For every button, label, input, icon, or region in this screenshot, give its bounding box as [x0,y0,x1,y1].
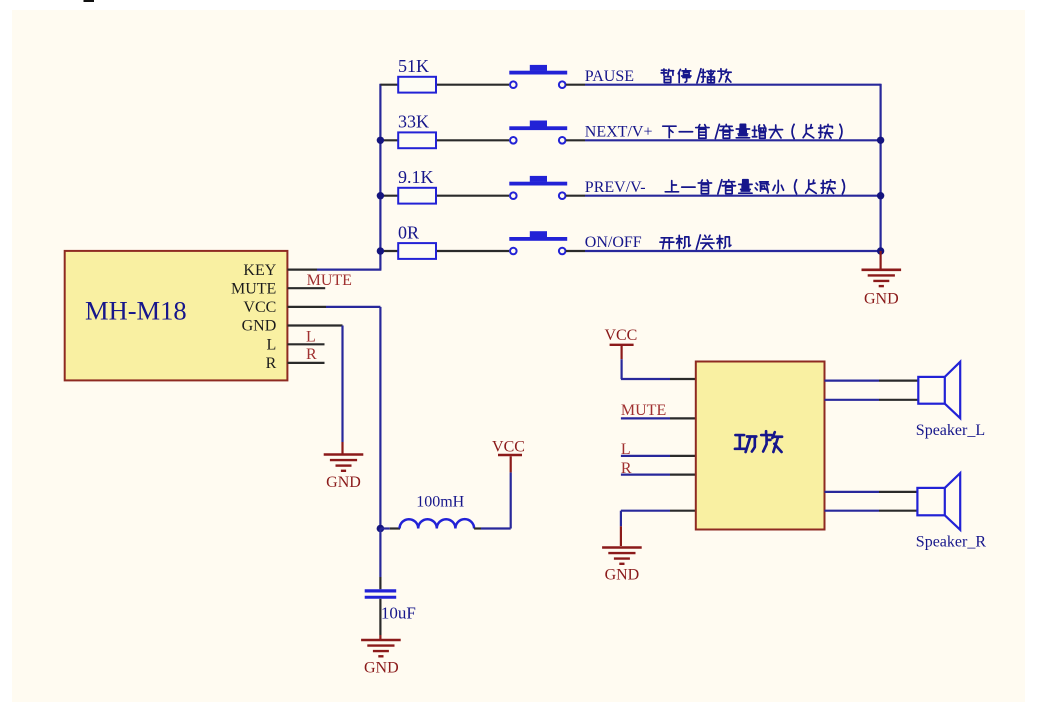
junction node VCC-L1 [377,525,385,533]
wire amp-to-speakerR top [825,491,880,493]
svg-text:100mH: 100mH [416,494,464,511]
svg-text:MH-M18: MH-M18 [85,296,187,326]
svg-text:Speaker_L: Speaker_L [916,422,985,439]
junction bus row 2 [877,137,884,144]
junction trunk row 4 [377,247,384,254]
junction trunk row 3 [377,192,384,199]
wire resistor-to-switch row 3 [437,195,509,197]
speaker LS2 Speaker_R [917,488,944,515]
svg-text:10uF: 10uF [381,604,416,623]
inductor L1 100mH [400,519,475,528]
module U1 MH-M18 [65,251,288,381]
wire junction-to-capacitor [379,529,381,578]
ground GND amp [602,546,642,549]
wire amp-to-speakerL bottom [825,399,880,401]
wire junction-to-inductor [380,527,389,529]
ground GND right bus [879,251,881,269]
wire switch-to-bus row 2 [566,139,585,141]
wire resistor-to-switch row 1 [437,84,509,86]
wire row 3 trunk-to-resistor [380,195,398,197]
label amplifier chinese [735,435,756,452]
ground GND module [324,453,364,456]
svg-text:PREV/V-: PREV/V- [585,179,646,196]
wire switch-to-bus row 3 [566,195,585,197]
pushbutton switch S2 [509,126,567,130]
power VCC bottom [498,454,522,456]
wire left trunk vertical [379,84,381,270]
svg-text:VCC: VCC [243,299,276,316]
wire VCC vertical [379,307,381,529]
svg-text:GND: GND [242,318,277,335]
wire switch-to-bus row 4 [566,250,585,252]
junction bus row 4 [877,247,884,254]
svg-text:Speaker_R: Speaker_R [916,534,987,551]
wire capacitor-to-ground [379,599,381,635]
svg-text:R: R [306,346,317,363]
svg-text:R: R [266,355,277,372]
svg-text:ON/OFF: ON/OFF [585,234,642,251]
junction bus row 3 [877,192,884,199]
svg-text:L: L [306,328,316,345]
label chinese [665,181,678,192]
pin R stub [288,362,325,364]
resistor R1 value 51K [398,77,436,93]
svg-text:51K: 51K [398,56,429,76]
wire GND down [341,326,343,443]
svg-text:L: L [267,337,277,354]
ground GND capacitor [361,639,401,642]
pin KEY wire [288,269,318,271]
wire amp-to-speakerL top [825,380,880,382]
wire resistor-to-switch row 4 [437,250,509,252]
wire VCC-to-amp [620,359,622,379]
wire amp-to-speakerR bottom [825,510,880,512]
wire right bus vertical [879,84,881,251]
wire row 1 trunk-to-resistor [380,84,398,86]
svg-text:GND: GND [364,660,399,677]
svg-text:PAUSE: PAUSE [585,68,634,85]
wire R-to-amp [621,474,670,476]
svg-text:GND: GND [864,291,899,308]
pushbutton switch S4 [509,237,567,241]
svg-text:MUTE: MUTE [231,280,276,297]
wire amp-to-ground [621,510,670,512]
speaker LS1 Speaker_L [918,377,945,404]
svg-text:KEY: KEY [243,262,276,279]
svg-text:9.1K: 9.1K [398,167,434,187]
resistor R3 value 9.1K [398,188,436,204]
label chinese [661,69,673,82]
wire switch-to-bus row 1 [566,84,585,86]
svg-text:MUTE: MUTE [621,402,666,419]
wire row 2 trunk-to-resistor [380,139,398,141]
svg-text:VCC: VCC [604,327,637,344]
pin MUTE stub [288,287,326,289]
pushbutton switch S1 [509,71,567,75]
pin L stub [288,343,325,345]
amplifier U2 [696,362,825,530]
wire MUTE-to-amp [621,417,670,419]
svg-text:MUTE: MUTE [307,272,352,289]
wire resistor-to-switch row 2 [437,139,509,141]
wire row 4 trunk-to-resistor [380,250,398,252]
wire inductor-to-VCC [474,527,481,529]
svg-text:GND: GND [326,474,361,491]
wire L-to-amp [621,455,670,457]
svg-text:GND: GND [605,567,640,584]
resistor R2 value 33K [398,132,436,148]
svg-text:33K: 33K [398,112,429,132]
pin GND wire [288,324,343,326]
pin VCC wire [288,306,327,308]
svg-text:VCC: VCC [492,439,525,456]
browser artifact top [84,0,95,2]
svg-text:NEXT/V+: NEXT/V+ [585,123,653,140]
svg-text:0R: 0R [398,222,419,242]
label chinese [663,126,676,137]
resistor R4 value 0R [398,243,436,259]
label chinese [660,238,674,249]
pushbutton switch S3 [509,182,567,186]
capacitor C1 10uF [365,589,397,592]
junction trunk row 2 [377,137,384,144]
